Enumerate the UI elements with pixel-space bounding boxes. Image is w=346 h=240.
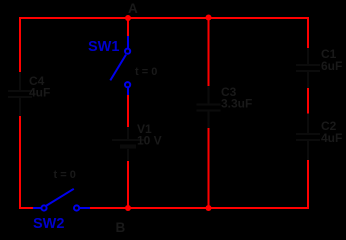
svg-text:A: A: [128, 1, 138, 16]
svg-text:t = 0: t = 0: [54, 169, 76, 181]
svg-text:t = 0: t = 0: [135, 66, 157, 78]
svg-text:10 V: 10 V: [137, 134, 162, 148]
svg-text:B: B: [116, 220, 126, 234]
svg-text:3.3uF: 3.3uF: [221, 97, 252, 111]
svg-text:SW2: SW2: [33, 216, 64, 232]
svg-text:4uF: 4uF: [321, 131, 342, 145]
svg-text:4uF: 4uF: [29, 86, 50, 100]
svg-text:6uF: 6uF: [321, 59, 342, 73]
svg-text:SW1: SW1: [88, 39, 119, 55]
